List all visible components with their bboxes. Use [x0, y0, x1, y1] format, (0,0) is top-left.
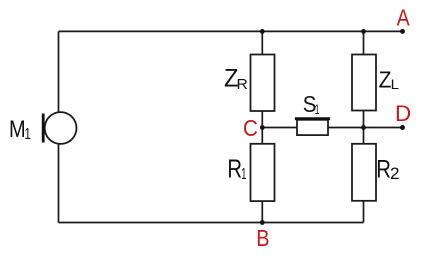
svg-text:R: R	[227, 156, 242, 184]
svg-text:L: L	[391, 76, 399, 92]
svg-text:R: R	[237, 77, 248, 93]
svg-text:C: C	[243, 115, 258, 141]
svg-text:M: M	[9, 117, 26, 143]
svg-text:1: 1	[24, 126, 30, 143]
svg-text:2: 2	[390, 164, 400, 183]
svg-text:Z: Z	[379, 66, 392, 92]
svg-text:A: A	[397, 5, 411, 31]
svg-text:D: D	[395, 101, 411, 126]
svg-text:R: R	[376, 156, 391, 184]
svg-text:B: B	[256, 225, 269, 251]
svg-text:1: 1	[241, 166, 246, 183]
svg-text:1: 1	[315, 101, 320, 117]
